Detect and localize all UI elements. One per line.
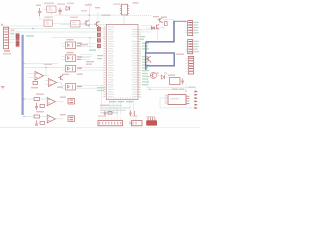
capacitor C2	[58, 8, 61, 15]
resistor R32	[33, 81, 38, 84]
U1 left pins	[104, 27, 107, 97]
voltage regulator U3	[44, 20, 52, 26]
U1 pin numbers left (red strip)	[103, 27, 105, 98]
resistor R20 (vertical, near connector)	[16, 31, 19, 49]
U7A input wires	[28, 67, 49, 78]
U5 label	[113, 3, 120, 5]
net labels under U1	[109, 101, 133, 102]
wire net from X1 pin1	[9, 28, 105, 30]
net labels right of JP1	[193, 22, 199, 34]
U8A input network resistors	[24, 98, 49, 111]
wire net from X1 pin6	[9, 42, 14, 44]
wire right cluster base	[146, 20, 174, 42]
pin header JP2 (right edge)	[185, 40, 193, 54]
resistor stack R10 R11 R12 (mid column)	[97, 25, 100, 51]
mid labels/wires near IC left	[89, 50, 96, 51]
transistor Q1 (top right cluster)	[157, 24, 160, 29]
opto box OK1	[61, 42, 96, 48]
U1 pin names right column	[132, 29, 138, 97]
relay K1	[170, 78, 181, 85]
net name underline (dotted red)	[126, 15, 151, 17]
pin header JP1 (right edge top)	[185, 21, 193, 36]
wire IC to right cluster	[141, 24, 153, 26]
U1 right pins	[138, 30, 141, 97]
wire below U6	[160, 107, 194, 109]
labels right of opto boxes	[77, 43, 82, 61]
wire net from X1 pin4	[9, 36, 16, 38]
wire U5 down	[123, 15, 125, 25]
diode D3	[151, 27, 154, 30]
wire above connector	[3, 25, 45, 27]
U6 right pin arrows	[187, 96, 190, 103]
label smudges top area	[36, 2, 139, 8]
junction on branch	[89, 37, 90, 38]
right edge pin arrows column	[195, 91, 199, 110]
wire net from X1 pin2	[9, 31, 105, 33]
U1 pin numbers right (red strip)	[139, 29, 141, 97]
diode D1	[66, 6, 70, 11]
connector X1 (left edge pin header)	[4, 27, 9, 49]
transistor Q6	[94, 21, 99, 27]
U6 pin numbers	[165, 95, 167, 103]
wires IC right to headers	[141, 30, 158, 32]
jumper JP5	[68, 99, 75, 105]
LED D2	[161, 72, 167, 79]
capacitor C1 (top-left)	[38, 8, 41, 16]
op-amp U8A	[47, 98, 55, 106]
jumper JP6	[68, 116, 75, 122]
wires below U1 to headers	[110, 100, 134, 115]
op-amp U7A	[35, 72, 44, 81]
resistor R45	[165, 22, 168, 26]
U6 left pins	[165, 96, 169, 103]
U8B output wire	[55, 118, 63, 120]
op-amp U8B	[47, 115, 55, 123]
transistor Q2	[158, 18, 163, 23]
wire net from X1 pin5	[9, 39, 15, 41]
transistor Q8 (circled)	[150, 72, 156, 78]
bus B1 (left vertical blue bus)	[22, 35, 24, 115]
voltage regulator U2 (top box)	[47, 6, 56, 12]
op-amp input polarity marks	[36, 74, 51, 121]
label mark top-left	[1, 24, 3, 25]
capacitor C21 (above J3)	[129, 111, 134, 117]
wire vertical junction	[88, 7, 90, 29]
logo connector (filled red)	[146, 120, 157, 125]
J3 label	[132, 115, 138, 116]
module U6 (bottom right big box)	[168, 95, 186, 105]
bus segment B (vertical)	[173, 21, 175, 42]
wire bus to opamp row	[24, 63, 58, 65]
pin header JP3 (right edge, tall)	[185, 56, 193, 74]
opto box OK4	[61, 84, 104, 90]
extra net label smudges	[26, 35, 195, 87]
U8A output wire	[55, 101, 63, 103]
frame border bottom	[0, 126, 48, 128]
U7B wires	[45, 80, 61, 85]
J2 label	[98, 115, 106, 116]
logo text above	[146, 116, 155, 117]
label text smudges opamp area	[31, 64, 66, 116]
transistor Q3 (inside bus rect)	[146, 56, 151, 63]
U1 pin names left column	[108, 26, 114, 97]
net labels XTAL (green, below-left of U1)	[97, 87, 105, 91]
U1 pin numbers bottom row	[109, 97, 135, 99]
wire net from X1 pin3	[9, 33, 20, 35]
transistor Q5	[84, 20, 89, 27]
capacitor C20 (above header J2)	[104, 111, 107, 117]
U6 inner text	[170, 98, 179, 99]
microcontroller U1 (main IC)	[106, 25, 138, 100]
wire opamp row 2	[24, 66, 62, 68]
opto box OK2	[61, 55, 92, 61]
wire jogs above J2	[105, 108, 117, 117]
IC U5 (top, 8-pin)	[120, 4, 129, 15]
wire IC pin routed down to J2	[102, 85, 105, 110]
copyright text block	[100, 105, 130, 114]
box U4	[71, 21, 80, 27]
connector X1 label	[4, 50, 10, 52]
wire to IC top	[60, 24, 107, 26]
wire left of U6	[160, 98, 165, 108]
bus segment A (top right horizontal)	[174, 20, 187, 22]
bus rectangle E	[146, 53, 175, 66]
opto box OK3	[61, 66, 104, 72]
text labels top row	[44, 2, 87, 18]
wire Q6 up	[88, 4, 98, 22]
bus stub below rect	[145, 66, 147, 70]
bus segment C (horizontal)	[146, 41, 175, 43]
bus segment D (vertical)	[145, 42, 147, 53]
wire row to IC	[52, 37, 105, 39]
net labels right of U1 (green)	[142, 43, 149, 86]
pin header J2 (bottom)	[98, 118, 123, 126]
transistor Q7	[58, 75, 63, 80]
net labels right of JP2	[193, 41, 199, 53]
wires right middle	[146, 75, 196, 91]
wires top section	[40, 9, 85, 23]
pin header J3 (bottom)	[130, 118, 142, 126]
label smudges right area	[152, 16, 184, 90]
top rail wire	[55, 14, 121, 16]
wire branch to chain	[89, 38, 91, 48]
ground sym left	[1, 87, 5, 90]
op-amp U7B	[49, 79, 57, 87]
resistor R50	[108, 112, 112, 115]
junction dots	[23, 15, 186, 118]
U8B input network	[24, 115, 49, 125]
capacitor C10	[181, 79, 184, 85]
net labels left of bus corner	[140, 36, 145, 40]
